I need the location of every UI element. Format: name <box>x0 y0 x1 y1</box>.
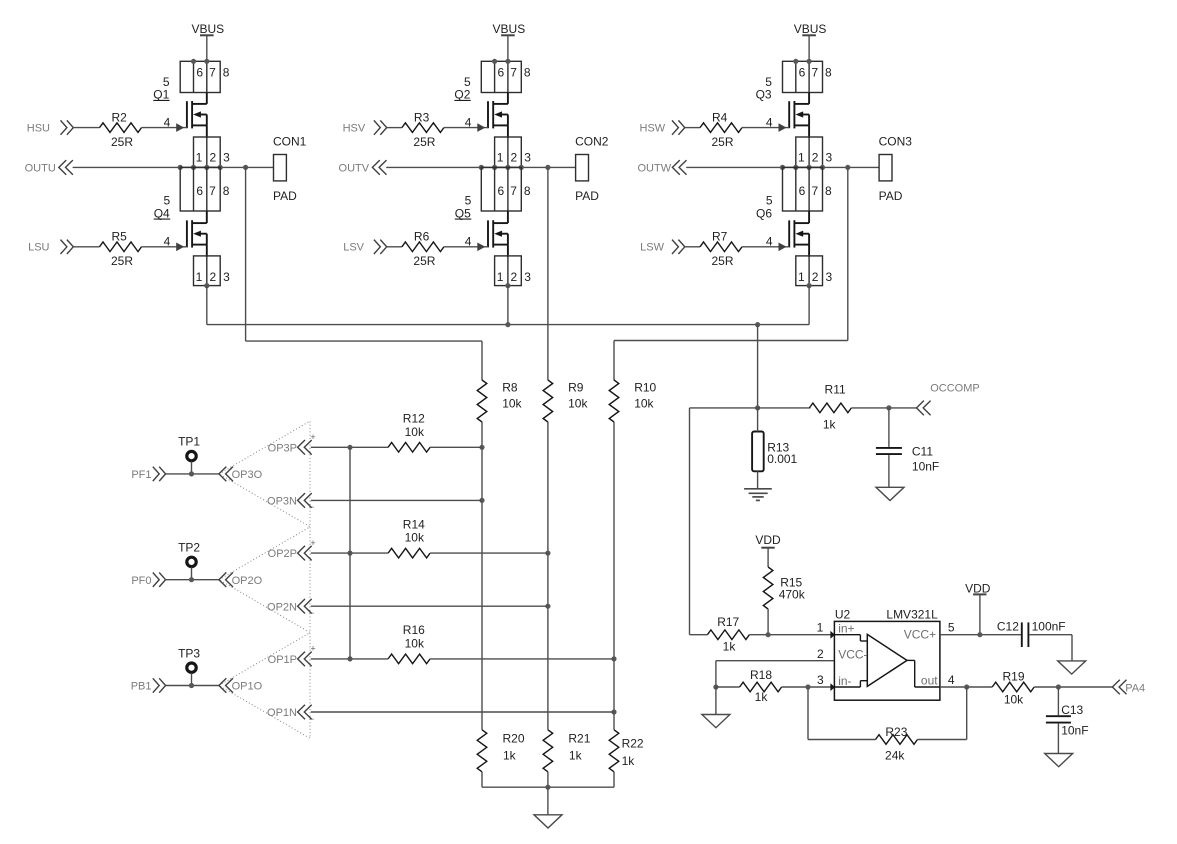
wire OCCOMP to R17 <box>690 408 708 635</box>
resistor R5 <box>100 242 142 252</box>
svg-text:25R: 25R <box>711 135 733 149</box>
wire <box>547 787 549 815</box>
svg-text:R12: R12 <box>403 412 425 426</box>
test point TP3 <box>178 646 200 685</box>
value 1k <box>823 417 837 431</box>
capacitor C11 <box>876 448 902 454</box>
label R16 <box>403 623 425 637</box>
wire <box>979 594 981 634</box>
pin number 8 <box>223 184 230 198</box>
svg-text:HSV: HSV <box>343 123 366 135</box>
wire <box>311 605 548 607</box>
value 10k <box>634 397 654 411</box>
wire <box>166 579 219 581</box>
source pin box Q6 pins 1-3 <box>796 256 823 286</box>
port HSV <box>343 120 387 134</box>
label C12 <box>997 619 1019 633</box>
svg-text:1k: 1k <box>755 690 769 704</box>
svg-text:OP1O: OP1O <box>232 681 263 693</box>
svg-text:2: 2 <box>511 270 518 284</box>
junction <box>807 283 812 288</box>
svg-text:5: 5 <box>465 193 472 207</box>
test point TP2 <box>178 541 200 580</box>
wire <box>311 658 388 660</box>
svg-text:OP3N: OP3N <box>267 496 297 508</box>
wire <box>767 548 769 567</box>
svg-text:3: 3 <box>817 673 824 687</box>
wire OCCOMP net <box>690 407 811 409</box>
wire <box>685 127 700 129</box>
junction <box>964 684 969 689</box>
port PF1 <box>131 467 165 481</box>
label R15 <box>780 576 802 590</box>
svg-text:25R: 25R <box>413 135 435 149</box>
wire R23 left leg <box>808 687 876 740</box>
svg-text:R2: R2 <box>112 110 128 124</box>
junction <box>766 632 771 637</box>
pin number 1 <box>497 270 504 284</box>
svg-text:C11: C11 <box>912 445 933 459</box>
wire pin2 net <box>716 661 835 687</box>
svg-text:1: 1 <box>798 150 805 164</box>
label R11 <box>825 382 846 396</box>
junction <box>189 471 194 476</box>
wire <box>481 422 483 730</box>
plus sign <box>310 432 315 442</box>
wire source to bus <box>808 286 810 325</box>
junction <box>977 632 982 637</box>
gate arrow <box>779 123 787 132</box>
label R17 <box>717 615 739 629</box>
svg-text:10k: 10k <box>502 397 522 411</box>
svg-text:1: 1 <box>817 621 824 635</box>
pin number 7 <box>811 184 818 198</box>
pin number 8 <box>223 66 230 80</box>
transistor label Q2 <box>454 88 470 102</box>
wire in+ internal <box>834 635 867 641</box>
value 10nF <box>1061 724 1088 738</box>
label C13 <box>1061 703 1083 717</box>
resistor R7 <box>700 242 742 252</box>
svg-text:R7: R7 <box>712 230 728 244</box>
pin number 3 <box>825 150 832 164</box>
wire <box>716 686 740 688</box>
port OP3P <box>268 440 312 455</box>
port OP2P <box>268 546 312 561</box>
svg-text:10k: 10k <box>405 531 425 545</box>
svg-text:C12: C12 <box>997 619 1019 633</box>
pin number 4 <box>465 235 472 249</box>
wire <box>782 686 835 688</box>
label R4 <box>712 110 728 124</box>
pin number 3 <box>825 270 832 284</box>
svg-text:OUTU: OUTU <box>25 163 56 175</box>
pin3 input arrow <box>830 683 835 691</box>
pin number 7 <box>811 66 818 80</box>
transistor label Q4 <box>154 206 171 220</box>
resistor R10 <box>609 380 619 422</box>
pin number 2 <box>209 150 216 164</box>
transistor Q4 (low-side N-MOSFET) <box>187 220 207 247</box>
gate arrow <box>477 123 485 132</box>
source pin box Q4 pins 1-3 <box>194 256 221 286</box>
svg-text:1: 1 <box>798 270 805 284</box>
capacitor C12 <box>1022 622 1029 647</box>
wire <box>808 125 810 138</box>
label R13 <box>767 441 789 455</box>
svg-text:VDD: VDD <box>755 533 781 547</box>
power VDD <box>755 533 781 548</box>
pin number 2 <box>209 270 216 284</box>
wire <box>715 687 717 715</box>
pin name in- <box>838 674 851 688</box>
wire <box>142 246 187 248</box>
source pin box Q5 pins 1-3 <box>495 256 522 286</box>
svg-text:VBUS: VBUS <box>794 22 827 36</box>
wire divider ground rail <box>482 786 614 788</box>
svg-text:5: 5 <box>948 621 955 635</box>
svg-text:10nF: 10nF <box>912 460 939 474</box>
label R5 <box>112 230 128 244</box>
value 1k <box>569 748 583 762</box>
wire <box>507 125 509 138</box>
junction <box>505 283 510 288</box>
pin number 1 <box>196 150 203 164</box>
svg-text:HSW: HSW <box>640 123 666 135</box>
svg-text:LSU: LSU <box>28 242 49 254</box>
source pin box Q2 pins 1-3 <box>495 137 522 167</box>
transistor Q3 (high-side N-MOSFET) <box>789 101 809 128</box>
pin 4 label <box>948 673 955 687</box>
wire <box>507 93 509 104</box>
resistor R16 <box>388 654 430 664</box>
svg-text:VCC-: VCC- <box>838 648 867 662</box>
svg-text:PF1: PF1 <box>131 469 151 481</box>
resistor R20 <box>477 730 487 772</box>
pin number 3 <box>524 150 531 164</box>
pin number 4 <box>164 235 171 249</box>
svg-text:Q3: Q3 <box>756 88 772 102</box>
label R23 <box>885 725 907 739</box>
pin name out <box>921 674 938 688</box>
drain pin box Q5 pins 5-8 <box>481 167 521 211</box>
svg-text:Q1: Q1 <box>153 88 169 102</box>
svg-text:VCC+: VCC+ <box>904 628 936 642</box>
value 10k <box>405 425 425 439</box>
plus sign <box>310 538 315 548</box>
gate arrow <box>779 243 787 252</box>
svg-text:10k: 10k <box>568 397 588 411</box>
svg-text:3: 3 <box>524 270 531 284</box>
pin number 5 <box>465 193 472 207</box>
svg-text:R18: R18 <box>750 668 772 682</box>
junction <box>191 59 210 64</box>
svg-text:OUTW: OUTW <box>637 163 671 175</box>
pin number 2 <box>812 150 819 164</box>
wire <box>547 772 549 787</box>
wire <box>808 245 810 257</box>
svg-text:R8: R8 <box>502 380 518 394</box>
svg-text:TP2: TP2 <box>178 541 200 555</box>
svg-text:R11: R11 <box>825 382 846 396</box>
svg-text:6: 6 <box>799 66 806 80</box>
plus sign <box>310 644 315 654</box>
wire <box>430 658 614 660</box>
resistor R9 <box>543 380 553 422</box>
svg-text:4: 4 <box>948 673 955 687</box>
wire <box>1057 687 1059 715</box>
junction <box>1056 684 1061 689</box>
port LSU <box>28 240 73 254</box>
svg-text:5: 5 <box>164 193 171 207</box>
port OP1O <box>219 678 263 693</box>
junction <box>611 656 616 661</box>
value 24k <box>885 748 905 762</box>
minus sign <box>309 502 314 512</box>
svg-text:25R: 25R <box>711 254 733 268</box>
wire <box>311 499 482 501</box>
value 1k <box>723 640 737 654</box>
value 100nF <box>1032 619 1066 633</box>
pin number 3 <box>223 150 230 164</box>
connector CON2 <box>575 135 609 204</box>
wire <box>888 408 890 447</box>
ground <box>1045 754 1073 767</box>
svg-text:PA4: PA4 <box>1125 682 1145 694</box>
connector CON3 <box>879 135 913 204</box>
svg-text:7: 7 <box>510 66 517 80</box>
svg-text:6: 6 <box>497 66 504 80</box>
label U2 <box>835 607 851 621</box>
svg-text:PF0: PF0 <box>131 575 151 587</box>
svg-text:1: 1 <box>196 270 203 284</box>
svg-text:TP1: TP1 <box>178 435 200 449</box>
ground <box>534 815 562 828</box>
wire OUTW net <box>686 166 879 168</box>
svg-text:OP1N: OP1N <box>267 707 297 719</box>
junctions on output node <box>780 165 851 170</box>
svg-text:R4: R4 <box>712 110 728 124</box>
svg-text:CON2: CON2 <box>575 135 609 149</box>
wire CON1 node drop <box>246 167 482 341</box>
value 1k <box>622 754 636 768</box>
wire <box>73 246 99 248</box>
svg-text:25R: 25R <box>413 254 435 268</box>
resistor R11 <box>809 403 851 413</box>
op-amp U2 LMV321L <box>834 621 940 700</box>
svg-text:2: 2 <box>817 647 824 661</box>
junction <box>479 445 484 450</box>
transistor label Q5 <box>455 206 472 220</box>
value 10k <box>1004 692 1024 706</box>
junction <box>347 656 352 661</box>
wire in- internal <box>834 681 867 687</box>
svg-text:5: 5 <box>766 193 773 207</box>
wire <box>742 127 789 129</box>
pin 3 label <box>817 673 824 687</box>
svg-text:Q2: Q2 <box>454 88 470 102</box>
svg-text:4: 4 <box>766 235 773 249</box>
junction <box>545 551 550 556</box>
port PA4 <box>1112 680 1145 695</box>
resistor R19 <box>992 682 1034 692</box>
svg-text:U2: U2 <box>835 607 851 621</box>
label R18 <box>750 668 772 682</box>
pin number 4 <box>164 115 171 129</box>
svg-text:6: 6 <box>196 66 203 80</box>
wire <box>613 422 615 730</box>
pin number 1 <box>798 270 805 284</box>
pin number 7 <box>209 184 216 198</box>
label R10 <box>634 380 656 394</box>
transistor label Q1 <box>153 88 169 102</box>
pin number 7 <box>209 66 216 80</box>
pin number 5 <box>163 75 170 89</box>
wire <box>206 35 208 61</box>
svg-text:out: out <box>921 674 938 688</box>
junction <box>793 59 812 64</box>
drain pin box Q6 pins 5-8 <box>783 167 823 211</box>
svg-text:Q4: Q4 <box>154 206 170 220</box>
svg-text:Q6: Q6 <box>756 206 772 220</box>
label R19 <box>1002 670 1024 684</box>
gate arrow <box>477 243 485 252</box>
connector CON1 <box>273 135 307 204</box>
value 25R <box>111 254 133 268</box>
svg-text:LMV321L: LMV321L <box>886 607 938 621</box>
resistor R18 <box>740 682 782 692</box>
pin number 5 <box>464 75 471 89</box>
port OUTW <box>637 160 686 175</box>
svg-text:25R: 25R <box>111 254 133 268</box>
svg-text:3: 3 <box>825 150 832 164</box>
wire pin4 net <box>940 686 992 688</box>
wire bus to shunt node <box>757 325 759 408</box>
svg-text:10k: 10k <box>405 636 425 650</box>
port OP3O <box>219 467 263 482</box>
drain pin box Q1 pins 5-8 <box>180 61 220 92</box>
svg-text:10k: 10k <box>1004 692 1024 706</box>
transistor label Q6 <box>756 206 772 220</box>
port OCCOMP <box>917 383 980 416</box>
svg-text:R20: R20 <box>503 732 525 746</box>
resistor R23 <box>876 735 918 745</box>
transistor Q1 (high-side N-MOSFET) <box>187 101 207 128</box>
pin number 3 <box>524 270 531 284</box>
svg-text:OP2N: OP2N <box>267 601 297 613</box>
svg-text:8: 8 <box>825 184 832 198</box>
svg-text:CON1: CON1 <box>273 135 307 149</box>
svg-text:3: 3 <box>825 270 832 284</box>
svg-text:R21: R21 <box>568 732 590 746</box>
svg-text:4: 4 <box>164 235 171 249</box>
drain pin box Q3 pins 5-8 <box>783 61 823 92</box>
pin number 4 <box>465 115 472 129</box>
junction <box>347 551 352 556</box>
wire <box>206 211 208 223</box>
svg-text:470k: 470k <box>779 587 806 601</box>
svg-text:3: 3 <box>223 270 230 284</box>
wire <box>311 552 388 554</box>
pin number 1 <box>196 270 203 284</box>
svg-text:7: 7 <box>209 184 216 198</box>
svg-text:8: 8 <box>524 66 531 80</box>
pin 2 label <box>817 647 824 661</box>
test point TP1 <box>178 435 200 474</box>
wire <box>547 422 549 730</box>
earth ground <box>744 489 772 501</box>
wire <box>142 127 187 129</box>
drain pin box Q2 pins 5-8 <box>481 61 521 92</box>
port OUTV <box>339 160 387 175</box>
source pin box Q1 pins 1-3 <box>194 137 221 167</box>
wire <box>613 341 615 381</box>
resistor R8 <box>477 380 487 422</box>
ground <box>876 487 904 500</box>
svg-text:8: 8 <box>825 66 832 80</box>
svg-text:4: 4 <box>465 235 472 249</box>
power VBUS (Q3 column) <box>794 22 827 36</box>
power VBUS (Q1 column) <box>191 22 224 36</box>
pin name VCC+ <box>904 628 936 642</box>
svg-text:0.001: 0.001 <box>767 452 797 466</box>
svg-text:6: 6 <box>196 184 203 198</box>
op-amp OP1 internal (dotted) <box>219 633 310 739</box>
wire <box>206 125 208 138</box>
port PB1 <box>131 678 166 692</box>
pin name VCC- <box>838 648 867 662</box>
wire <box>387 127 402 129</box>
svg-text:R3: R3 <box>414 110 430 124</box>
svg-text:1: 1 <box>497 270 504 284</box>
transistor Q2 (high-side N-MOSFET) <box>488 101 508 128</box>
svg-text:3: 3 <box>223 150 230 164</box>
value 10k <box>405 636 425 650</box>
label C11 <box>912 445 933 459</box>
resistor R17 <box>707 630 749 640</box>
wire <box>481 772 483 787</box>
pin number 7 <box>510 184 517 198</box>
svg-text:2: 2 <box>209 270 216 284</box>
svg-text:8: 8 <box>223 66 230 80</box>
wire <box>311 446 388 448</box>
junctions on output node <box>178 165 249 170</box>
svg-text:25R: 25R <box>111 135 133 149</box>
label R20 <box>503 732 525 746</box>
svg-text:1k: 1k <box>823 417 837 431</box>
svg-text:R14: R14 <box>403 517 425 531</box>
wire <box>851 407 916 409</box>
minus sign <box>309 608 314 618</box>
wire <box>481 341 483 380</box>
transistor Q5 (low-side N-MOSFET) <box>488 220 508 247</box>
pin number 8 <box>524 184 531 198</box>
junction <box>713 684 718 689</box>
svg-text:OP3P: OP3P <box>268 442 297 454</box>
junction <box>505 322 510 327</box>
svg-text:VDD: VDD <box>965 581 991 595</box>
pin number 1 <box>798 150 805 164</box>
svg-text:TP3: TP3 <box>178 646 200 660</box>
wire out internal <box>907 660 940 687</box>
port PF0 <box>131 573 165 587</box>
pin number 6 <box>196 66 203 80</box>
label R2 <box>112 110 128 124</box>
junction <box>479 498 484 503</box>
svg-text:7: 7 <box>510 184 517 198</box>
op-amp OP3 internal (dotted) <box>219 421 310 527</box>
resistor R3 <box>402 123 444 133</box>
